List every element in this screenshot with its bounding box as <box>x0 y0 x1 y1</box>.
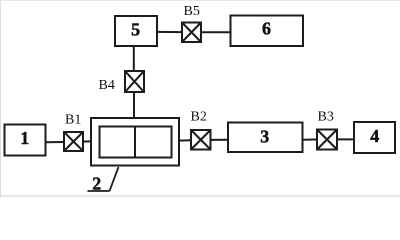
svg-text:B1: B1 <box>65 113 81 128</box>
svg-text:5: 5 <box>131 20 140 40</box>
svg-text:B4: B4 <box>99 78 115 93</box>
svg-text:4: 4 <box>370 126 379 146</box>
svg-text:2: 2 <box>92 174 101 194</box>
svg-text:6: 6 <box>262 18 271 38</box>
svg-text:3: 3 <box>260 127 269 147</box>
svg-text:B3: B3 <box>318 110 334 125</box>
svg-text:1: 1 <box>20 128 29 148</box>
svg-text:B5: B5 <box>184 4 200 19</box>
svg-text:B2: B2 <box>191 110 207 125</box>
